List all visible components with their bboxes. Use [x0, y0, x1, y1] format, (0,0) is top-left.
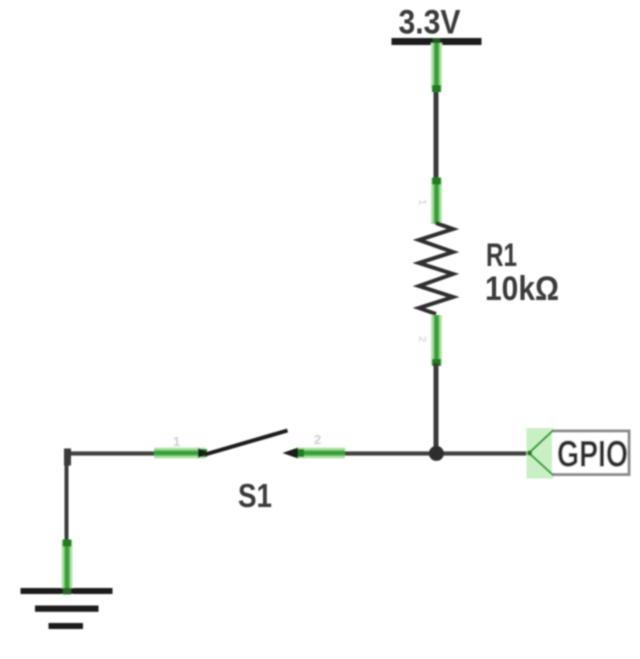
- ground pin highlight: [63, 540, 72, 595]
- svg-text:2: 2: [314, 432, 321, 447]
- switch S1 pin 2 highlight: [296, 448, 345, 459]
- svg-text:1: 1: [416, 199, 428, 205]
- resistor R1 body: [419, 223, 453, 314]
- switch S1 pin 2 contact cap: [295, 449, 304, 457]
- switch S1 lever: [205, 431, 288, 455]
- svg-text:10kΩ: 10kΩ: [485, 270, 559, 308]
- switch S1 pin 1 contact arrow: [198, 448, 210, 458]
- ground pin crossing tint: [63, 588, 71, 595]
- svg-text:GPIO: GPIO: [557, 434, 628, 475]
- wire resistor to junction: [434, 363, 439, 453]
- pin highlight power rail: [432, 43, 441, 92]
- switch S1 pin 1 contact cap: [199, 449, 207, 457]
- svg-text:1: 1: [173, 434, 180, 449]
- ground symbol bar 2: [35, 606, 99, 612]
- power rail bar: [392, 38, 482, 45]
- wire junction to GPIO: [436, 451, 531, 455]
- wire switch to ground corner: [66, 451, 158, 455]
- wire power rail to resistor: [434, 88, 439, 182]
- svg-text:3.3V: 3.3V: [399, 4, 461, 42]
- wire junction to switch: [343, 451, 436, 455]
- wire corner down to ground: [65, 453, 69, 545]
- switch S1 pin 2 contact arrow: [283, 448, 299, 459]
- GPIO flag chevron: [529, 431, 553, 476]
- svg-text:S1: S1: [238, 477, 272, 514]
- switch S1 pin 1 highlight: [154, 448, 205, 459]
- GPIO flag highlight: [527, 428, 554, 479]
- GPIO pin tip dot: [527, 450, 532, 455]
- corner joint: [64, 449, 71, 466]
- ground symbol bar 3: [49, 623, 84, 629]
- junction node: [429, 446, 444, 461]
- svg-text:R1: R1: [486, 237, 517, 273]
- pin highlight resistor pin 1: [432, 178, 441, 225]
- ground symbol bar 1: [21, 588, 113, 594]
- svg-text:2: 2: [416, 336, 428, 342]
- pin highlight resistor pin 2: [432, 315, 441, 366]
- power rail crossing tint: [433, 38, 440, 45]
- GPIO box: [552, 431, 629, 475]
